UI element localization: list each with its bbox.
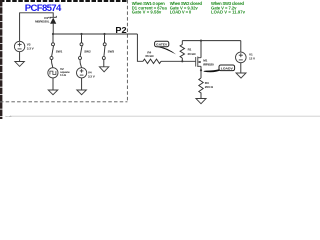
svg-text:3.3 V: 3.3 V [88,75,96,79]
svg-text:IRF9520: IRF9520 [203,62,214,66]
svg-text:LOAD V = 0: LOAD V = 0 [170,9,192,14]
svg-text:Gate V = 9.58v: Gate V = 9.58v [132,9,162,14]
svg-text:40 kΩ: 40 kΩ [187,52,196,56]
svg-text:1 Hz: 1 Hz [60,73,67,77]
svg-text:12 V: 12 V [249,56,256,60]
svg-text:3.3 V: 3.3 V [27,47,35,51]
svg-text:LOADV: LOADV [221,66,234,70]
svg-text:200 Ω: 200 Ω [205,85,214,89]
svg-text:66 kΩ: 66 kΩ [145,54,154,58]
svg-text:SW1: SW1 [56,49,63,53]
svg-text:SW3: SW3 [108,49,115,53]
svg-text:tw mfr: tw mfr [6,115,12,118]
svg-text:GATEV: GATEV [156,43,168,47]
svg-text:P2: P2 [115,25,127,35]
svg-text:R1: R1 [188,48,192,52]
svg-text:MBR0520L: MBR0520L [35,20,50,24]
svg-text:LOAD V = 11.97v: LOAD V = 11.97v [211,9,246,14]
svg-text:SW2: SW2 [84,49,91,53]
